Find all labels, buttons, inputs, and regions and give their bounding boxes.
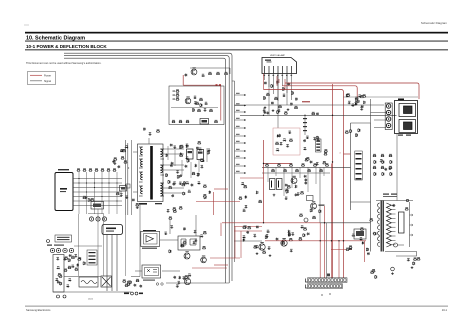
connector CN403 row2 outline xyxy=(308,284,343,289)
AC cord terminal 2 xyxy=(63,295,66,298)
T801 secondary winding section 2 xyxy=(160,165,164,175)
resistor filter F7 xyxy=(113,168,117,171)
x305 part 1 xyxy=(303,118,307,119)
capacitor fuseboxC4 xyxy=(56,257,59,260)
resistor deflsideR2 xyxy=(369,218,373,221)
IC301 pin lead long 1 xyxy=(268,74,270,116)
faint page corner mark xyxy=(24,24,29,26)
ground below FBT 1 xyxy=(391,272,394,275)
resistor midrow R407 xyxy=(307,169,311,172)
svg-text:Schematic Diagram: Schematic Diagram xyxy=(421,21,448,25)
IC301 pin 7 xyxy=(291,66,293,74)
resistor filter F4 xyxy=(95,168,99,171)
diode fenceD8 xyxy=(278,134,281,138)
FBT T444 core bar 1 xyxy=(381,201,382,252)
resistor houtR2 xyxy=(298,237,302,240)
resistor R802 xyxy=(216,72,220,75)
diode hout2D5 xyxy=(348,247,352,250)
driver block internals xyxy=(181,239,196,245)
diode acpartsD10 xyxy=(71,265,75,268)
x305 part 4 xyxy=(303,130,307,131)
diode houtD4 xyxy=(243,238,246,242)
resistor sec5R3 xyxy=(243,185,247,188)
resistor drive2R6 xyxy=(184,275,188,278)
resistor midrow2R3 xyxy=(322,161,326,164)
below connector dot 1 xyxy=(321,294,322,295)
resistor fuseboxR5 xyxy=(60,282,63,286)
IC801S regulator outline xyxy=(102,225,123,235)
diode secD8 xyxy=(186,144,189,148)
power rail across mid red xyxy=(264,163,293,165)
T801 primary winding section 1 xyxy=(139,147,143,156)
resistor sec3R3 xyxy=(179,206,183,209)
capacitor fenceC3 xyxy=(286,144,289,147)
arrow head branch 7 xyxy=(244,142,246,144)
wire bus branch 1 xyxy=(235,94,247,96)
power rail stub vertical xyxy=(284,79,286,90)
wire FBT bottom out xyxy=(385,252,417,257)
capacitor drive2C2 xyxy=(177,281,180,284)
resistor filt2R6 xyxy=(113,157,117,160)
wire AC inlet lead 1 xyxy=(73,178,122,180)
diode houtD13 xyxy=(266,230,270,233)
AC terminal pin 4 xyxy=(71,250,72,251)
capacitor midunderC3 xyxy=(295,193,298,196)
line filter LF801 box xyxy=(120,186,127,192)
resistor filtmidR2 xyxy=(82,196,86,199)
resistor R305 xyxy=(282,87,285,91)
legend box xyxy=(28,72,56,85)
degauss connector circle 3 xyxy=(102,217,106,221)
capacitor houtC6 xyxy=(256,225,259,228)
resistor filt3R3 xyxy=(116,192,120,195)
AC small circle xyxy=(47,240,50,243)
LF801 winding xyxy=(121,187,125,190)
capacitor railpartsC9 xyxy=(360,107,363,110)
capacitor houtC17 xyxy=(276,237,279,240)
CN801 pin 1 xyxy=(316,141,320,142)
wire left bus vertical 2 xyxy=(127,143,129,215)
FBT top label 1 xyxy=(383,194,389,195)
IC301 pin 1 lead xyxy=(264,74,266,81)
varistor ladder rung 1 xyxy=(89,252,96,253)
resistor topctr2R2 xyxy=(324,149,328,152)
resistor topctr2R1 xyxy=(324,152,328,155)
diode D303 xyxy=(295,97,298,101)
ground under vertical amp 3 xyxy=(287,108,290,111)
resistor defl-lowerR3 xyxy=(358,128,361,132)
connector CN403 pin r2p11 xyxy=(340,285,342,288)
capacitor fenceC5 xyxy=(279,142,282,145)
wire filter vertical 2 xyxy=(86,172,88,214)
capacitor buspartsC8 xyxy=(267,111,270,114)
ground hout 1 xyxy=(256,252,259,255)
footer rule xyxy=(25,305,448,308)
net label stub 10 xyxy=(236,164,240,165)
resistor filt2R2 xyxy=(121,156,125,159)
arrow head branch 3 xyxy=(244,111,246,113)
resistor houtR25 xyxy=(242,226,246,229)
transformer T801 body outline xyxy=(138,144,164,202)
resistor deflgrid R450 xyxy=(382,172,385,176)
CN801 pin 2 xyxy=(316,144,320,145)
wire midbus stub 6 xyxy=(307,167,309,192)
capacitor fuseboxC1 xyxy=(57,281,60,284)
resistor secR21 xyxy=(207,151,210,155)
resistor sec4R3 xyxy=(204,195,207,199)
junction marks X2 xyxy=(219,84,221,86)
resistor sec4R4 xyxy=(203,194,207,197)
filter junction 3 xyxy=(94,182,95,183)
FBT T444 core bar 2 xyxy=(383,201,384,252)
T801 left pin a xyxy=(133,151,138,153)
resistor sec2R4 xyxy=(192,172,196,175)
resistor tleftlowR3 xyxy=(135,203,139,206)
resistor fuseboxR2 xyxy=(59,275,63,278)
capacitor C820 small box xyxy=(126,184,130,188)
resistor R808 xyxy=(192,108,194,112)
resistor R307 xyxy=(274,97,278,100)
degauss connector pin 2 xyxy=(97,218,98,219)
CN801 pin 3 xyxy=(316,147,320,148)
label R804 xyxy=(173,90,176,93)
caution text line1 xyxy=(57,237,70,238)
FBT right wire xyxy=(409,202,411,247)
jack block bottom label 2 xyxy=(406,135,411,136)
diode houtD12 xyxy=(300,225,304,228)
resistor secR10 xyxy=(180,145,184,148)
resistor filter F5 xyxy=(101,168,105,171)
resistor hdrvR1 xyxy=(319,209,322,213)
AC cord terminal 1 xyxy=(57,295,60,298)
net label stub 1 xyxy=(236,93,240,94)
resistor hdrvR2 xyxy=(312,216,316,219)
capacitor C303 xyxy=(264,81,267,84)
power rail B+ top xyxy=(285,83,419,99)
wire filter vertical 1 xyxy=(78,172,80,214)
ground under vertical amp 2 xyxy=(272,109,275,112)
transistor Q804 horizontal drive xyxy=(311,201,317,209)
wire secondary 1 xyxy=(163,148,184,150)
capacitor errampC4 xyxy=(285,184,288,187)
wire midbus stub 1 xyxy=(267,167,269,182)
wire bus branch 4 xyxy=(235,119,247,121)
diode fuseboxD6 xyxy=(56,266,60,269)
resistor sec2R16 xyxy=(177,175,180,179)
diode houtD3 xyxy=(242,235,246,238)
FBT arrow 3 xyxy=(410,234,413,236)
connector CN403 bracket bottom xyxy=(306,285,308,289)
box left of Q804 xyxy=(307,196,314,201)
resistor fuseboxR3 xyxy=(57,273,61,276)
capacitor C306 xyxy=(271,101,274,104)
rule under section title xyxy=(25,40,448,43)
junction y115 c xyxy=(332,115,333,116)
junction y115 b xyxy=(304,115,305,116)
wire jack feed 2 xyxy=(371,112,387,114)
diode railpartsD3 xyxy=(357,100,360,104)
resistor buspartsR3 xyxy=(311,112,315,115)
wire AC mid bus xyxy=(64,276,101,278)
capacitor midlowC3 xyxy=(164,232,167,235)
IC802 label below xyxy=(142,248,157,249)
AC inlet label2 xyxy=(60,191,66,192)
FBT arrow 2 xyxy=(410,224,413,226)
diode D810 above T801 xyxy=(143,127,146,131)
IC301 pin 5 lead xyxy=(282,74,284,87)
wire midbus stub 7 xyxy=(315,167,317,184)
AC terminal circle 4 xyxy=(69,248,73,252)
resistor sec5R7 xyxy=(239,197,243,200)
FBT HV block xyxy=(399,212,405,233)
varistor ladder rung 2 xyxy=(89,255,96,256)
wire left bus vertical 1 xyxy=(125,140,127,215)
svg-text:Power: Power xyxy=(44,74,51,77)
capacitor drive2C7 xyxy=(173,276,176,279)
T801 top pin wire xyxy=(148,138,150,144)
capacitor rclustC3 xyxy=(384,168,387,171)
T801 secondary winding section 3 xyxy=(160,183,164,196)
capacitor C802 xyxy=(193,96,196,99)
wire drive bus xyxy=(160,239,178,241)
wire red feed to bus xyxy=(183,84,221,86)
below connector dot 2 xyxy=(329,293,330,294)
resistor acsmallR3 xyxy=(83,261,86,265)
ladder rung 3 xyxy=(356,163,362,165)
diode acpartsD1 xyxy=(68,278,72,281)
capacitor filtmidC1 xyxy=(85,196,88,199)
junction y115 a xyxy=(263,115,264,116)
transistor Q806 xyxy=(201,256,207,263)
ladder rung 6 xyxy=(356,178,362,180)
filter junction b5 xyxy=(108,182,109,183)
speaker terminal pin 2 xyxy=(388,112,390,114)
capacitor fbtpartsC2 xyxy=(392,204,395,207)
capacitor erramp2C3 xyxy=(304,175,307,178)
resistor houtR16 xyxy=(303,233,306,237)
resistor hout2R8 xyxy=(349,245,353,248)
drive transformer T402 box xyxy=(354,229,366,239)
resistor midrow2R2 xyxy=(305,158,309,161)
diode leftbuspartsD1 xyxy=(125,145,129,148)
connector CN402 pin r1p2 xyxy=(312,279,314,282)
power red v x235 xyxy=(234,227,236,259)
net label stub 7 xyxy=(236,141,240,142)
IC301 pin 1 xyxy=(264,66,266,74)
wire hot top drop xyxy=(229,68,231,74)
resistor jackrowR5 xyxy=(360,95,364,98)
capacitor sec3C5 xyxy=(166,209,169,212)
capacitor midunderC4 xyxy=(297,192,300,195)
resistor acpartsR7 xyxy=(64,257,68,260)
diode secD23 xyxy=(198,148,202,151)
bottom circle a xyxy=(131,292,134,295)
connector label xyxy=(327,274,330,277)
T801 left pin b xyxy=(133,191,138,193)
capacitor sec2C17 xyxy=(171,194,174,197)
wire bridge riser xyxy=(139,203,141,277)
ladder rung 1 xyxy=(356,153,362,155)
label R805 xyxy=(173,94,176,97)
FBT secondary zigzag winding xyxy=(386,203,391,247)
power junction 7 xyxy=(338,240,339,241)
connector CN402 pin r1p8 xyxy=(331,279,333,282)
wire secondary stub 1 xyxy=(167,146,169,160)
svg-text:10-1 POWER & DEFLECTION BLOCK: 10-1 POWER & DEFLECTION BLOCK xyxy=(26,44,107,49)
diode errampD2 xyxy=(295,185,298,189)
resistor acrR3 xyxy=(129,280,132,284)
resistor midrow R404 xyxy=(289,163,293,166)
wire bus branch 8 xyxy=(235,150,247,152)
diode hout2D7 xyxy=(352,234,356,237)
optocoupler PC802 box xyxy=(277,179,283,190)
resistor acsmallR2 xyxy=(77,257,81,260)
capacitor drive2C4 xyxy=(176,284,179,287)
wire bus branch 3 xyxy=(235,111,247,113)
wire jack block down xyxy=(396,134,398,201)
capacitor buspartsC7 xyxy=(264,111,267,114)
diode sec5D8 xyxy=(245,195,248,199)
capacitor filt2C5 xyxy=(112,160,115,163)
resistor leftbuspartsR4 xyxy=(122,149,126,152)
diode drive2D3 xyxy=(188,273,192,276)
resistor midunderR2 xyxy=(300,191,304,194)
power vertical x324 xyxy=(324,206,326,278)
wire vertical x305 xyxy=(304,115,306,135)
terminal circle low 1 xyxy=(156,283,158,285)
resistor R310 xyxy=(278,105,282,108)
resistor R801 xyxy=(208,72,212,75)
resistor R804 xyxy=(176,89,180,92)
T402 hatch xyxy=(356,231,364,236)
AC terminal circle 2 xyxy=(56,248,60,252)
capacitor midlowC2 xyxy=(193,230,196,233)
resistor R805 xyxy=(176,93,180,96)
ladder rung 5 xyxy=(356,173,362,175)
T801 secondary winding section 1 xyxy=(160,149,164,159)
ground under vertical amp 1 xyxy=(264,106,267,109)
wire midbus stub 2 xyxy=(275,167,277,176)
resistor deflsideR3 xyxy=(374,232,377,236)
resistor R309 xyxy=(263,96,266,100)
driver block box xyxy=(178,236,200,250)
jack block top tab xyxy=(398,99,404,101)
IC301 pin 5 xyxy=(282,66,284,74)
power rail segment y178 xyxy=(240,177,264,179)
resistor acpartsR11 xyxy=(68,258,71,262)
resistor R812 xyxy=(179,120,183,123)
capacitor C803 xyxy=(203,108,206,111)
resistor R807 xyxy=(199,98,203,101)
connector CN402 bracket top xyxy=(306,279,308,283)
wire secondary out red xyxy=(213,192,215,215)
wire bus branch 5 xyxy=(235,127,247,129)
T801 primary winding section 4 xyxy=(139,186,143,196)
resistor deflgrid R448 xyxy=(389,166,393,169)
resistor midrow R401 xyxy=(271,169,275,172)
optocoupler IC803 outer box xyxy=(142,265,161,278)
resistor stbyR2 xyxy=(200,103,202,107)
resistor hout2R6 xyxy=(360,227,364,230)
power red y258 xyxy=(210,257,240,259)
wire jack feed 4 xyxy=(374,127,386,129)
power red vertical in standby box xyxy=(220,85,222,120)
degauss connector pin 3 xyxy=(104,218,105,219)
power red y249 xyxy=(331,249,352,251)
capacitor C812 stripe xyxy=(188,151,193,153)
wire mid bus 1 xyxy=(262,166,351,168)
resistor houtR15 xyxy=(288,233,291,237)
diode secD12 xyxy=(185,156,189,159)
net label stub 2 xyxy=(236,103,240,104)
connector CN402 pin r1p3 xyxy=(315,279,317,282)
resistor errampR3 xyxy=(285,189,289,192)
power junction 2 xyxy=(263,222,264,223)
diode sec2D9 xyxy=(185,181,189,184)
capacitor lowleftC3 xyxy=(134,284,137,287)
power red y265 xyxy=(214,264,228,266)
wire secondary stub 6 xyxy=(206,148,208,162)
power red into defl xyxy=(344,153,351,155)
transformer T801 label xyxy=(139,203,147,205)
PC801 internal bars xyxy=(271,181,272,188)
resistor midrow R408 xyxy=(313,163,317,166)
wire x320 vertical xyxy=(319,167,321,222)
diode fenceD6 xyxy=(283,138,287,141)
resistor jackrowR1 xyxy=(346,94,349,98)
jack J602 inner plug xyxy=(404,122,413,130)
FBT focus lead xyxy=(398,244,405,246)
resistor hdrvR3 xyxy=(299,214,303,217)
resistor midrow R405 xyxy=(295,169,299,172)
left bus junction 2 xyxy=(125,184,126,185)
wire red drop xyxy=(182,75,184,85)
ladder outline xyxy=(355,151,363,180)
net label stub 9 xyxy=(236,156,240,157)
capacitor acpartsC5 xyxy=(69,254,72,257)
connector CN402 pin r1p9 xyxy=(334,279,336,282)
resistor fenceR1 xyxy=(289,139,293,142)
capacitor C304 xyxy=(288,82,291,85)
capacitor C813 stripe xyxy=(198,152,203,154)
diode fenceD4 xyxy=(277,134,280,138)
power red y189 xyxy=(214,188,228,190)
wire degauss link xyxy=(88,213,104,215)
filter junction 2 xyxy=(86,182,87,183)
T801 primary winding section 3 xyxy=(139,172,143,182)
varistor ladder box xyxy=(87,250,97,265)
diode D801 xyxy=(201,74,205,77)
capacitor C810 above T801 xyxy=(148,132,151,135)
CRT socket circle xyxy=(391,267,395,271)
diode secD11 xyxy=(180,152,183,156)
resistor R810 xyxy=(209,109,213,112)
IC301 pin lead long 3 xyxy=(286,74,288,106)
capacitor C812 can xyxy=(187,149,194,159)
resistor deflgrid R445 xyxy=(390,160,393,164)
wire jack link top xyxy=(343,96,418,98)
wire filter vertical 4 xyxy=(101,172,103,214)
capacitor secC22 xyxy=(173,145,176,148)
connector CN402 pin r1p6 xyxy=(325,279,327,282)
diode railpartsD5 xyxy=(351,104,355,107)
IC301 part label xyxy=(265,60,271,61)
diode topctrD2 xyxy=(303,147,307,150)
connector CN403 pin r2p4 xyxy=(318,285,320,288)
capacitor C813 can xyxy=(197,150,204,160)
resistor filter F2 xyxy=(83,168,87,171)
diode hout2D9 xyxy=(359,237,363,240)
